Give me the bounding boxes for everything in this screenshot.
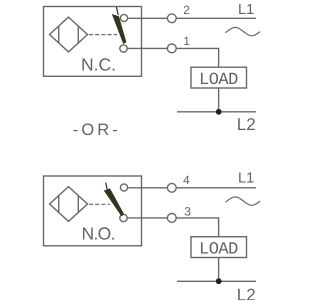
svg-text:LOAD: LOAD xyxy=(199,241,238,260)
svg-text:N.O.: N.O. xyxy=(82,223,116,243)
svg-text:L2: L2 xyxy=(237,285,256,300)
svg-text:3: 3 xyxy=(184,205,191,219)
svg-text:L2: L2 xyxy=(237,115,256,134)
svg-text:L1: L1 xyxy=(238,2,254,18)
svg-text:4: 4 xyxy=(183,173,190,187)
svg-text:L1: L1 xyxy=(238,171,254,187)
svg-text:1: 1 xyxy=(183,34,190,48)
svg-text:N.C.: N.C. xyxy=(81,55,116,75)
svg-text:LOAD: LOAD xyxy=(199,71,238,90)
svg-text:2: 2 xyxy=(183,3,190,17)
